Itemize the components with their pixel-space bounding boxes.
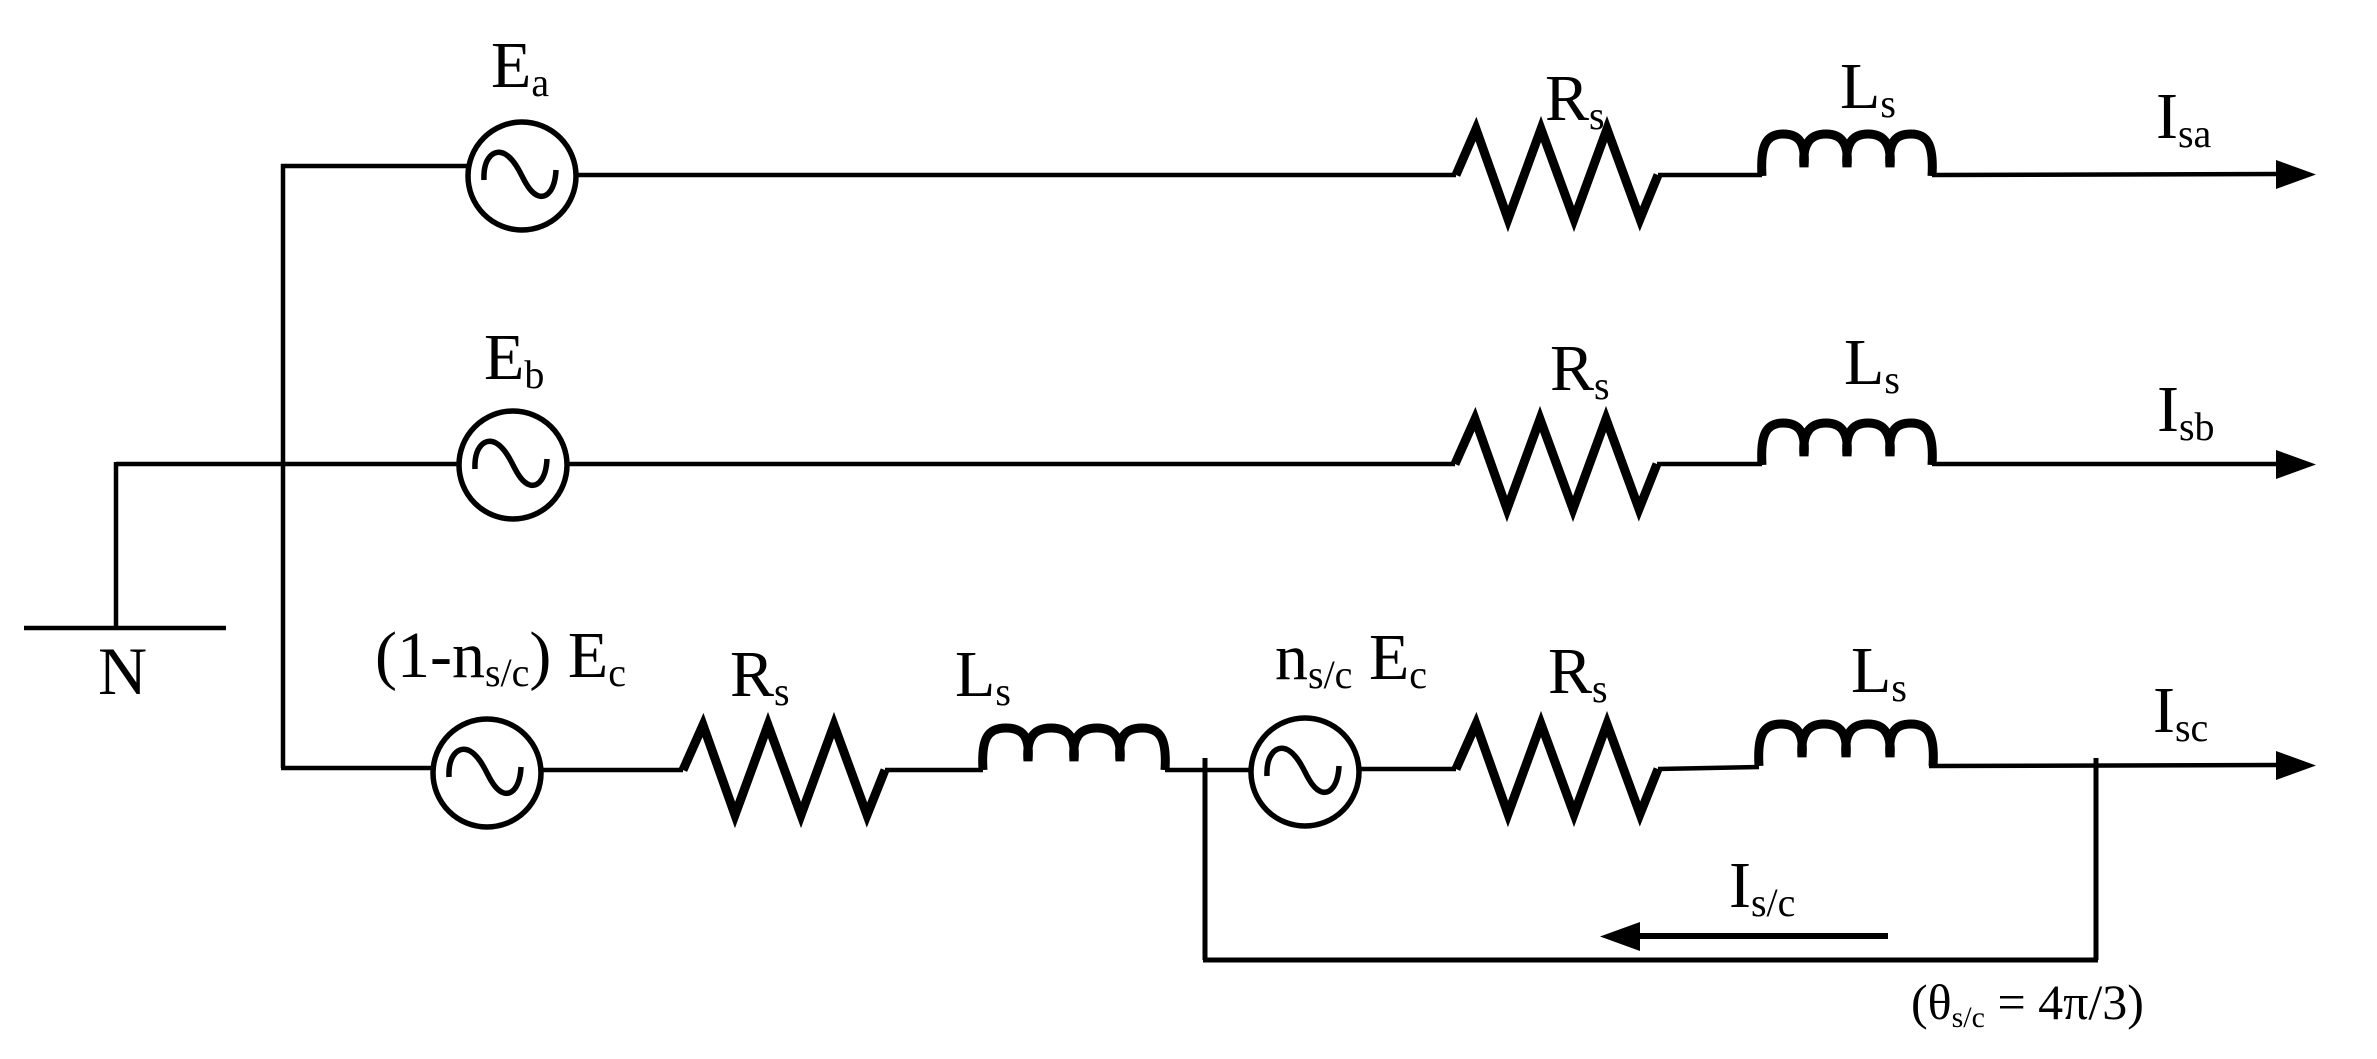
source Ea sine symbol: [484, 152, 556, 196]
wire phase b middle (source to resistor): [567, 462, 1455, 467]
source (1-ns/c)Ec circle: [433, 719, 541, 827]
node N bus (neutral vertical wire): [281, 164, 286, 768]
wire phase b right: [1932, 462, 2278, 467]
current arrow Isb head: [2276, 450, 2316, 479]
resistor Rs phase a: [1456, 129, 1658, 219]
current arrow Is/c head: [1600, 922, 1640, 951]
wire phase c (resistor 1 to inductor 1): [885, 768, 983, 773]
wire phase b left (corner to source Eb): [116, 462, 459, 467]
resistor Rs phase b: [1455, 419, 1657, 509]
resistor Rs phase c first: [683, 725, 885, 815]
current arrow Isc head: [2276, 751, 2316, 780]
wire phase c left (bus corner to source): [281, 766, 434, 771]
source ns/cEc sine symbol: [1267, 748, 1339, 792]
svg-text:(θs/c = 4π/3): (θs/c = 4π/3): [1911, 974, 2144, 1034]
inductor Ls phase c second: [1759, 724, 1934, 766]
inductor Ls phase a: [1762, 134, 1933, 176]
wire phase c (inductor 1 to source 2, with junction): [1165, 768, 1253, 773]
source Eb circle: [459, 411, 567, 519]
wire phase a middle (source to resistor): [576, 173, 1456, 178]
source Eb sine symbol: [475, 441, 547, 485]
current arrow Isa head: [2276, 160, 2316, 189]
wire stub to neutral N: [114, 462, 119, 628]
wire phase b (resistor to inductor): [1657, 462, 1762, 467]
wire phase c (source 2 to resistor 2): [1359, 767, 1456, 772]
current arrow Is/c line (pointing left): [1640, 933, 1888, 939]
wire short-circuit loop bottom: [1203, 958, 2098, 963]
wire phase a (resistor to inductor): [1658, 173, 1762, 178]
ground bar N: [24, 626, 226, 631]
wire phase c (resistor 2 to inductor 2): [1658, 767, 1759, 769]
wire short-circuit loop left vertical: [1203, 758, 1208, 960]
svg-text:N: N: [98, 633, 147, 709]
inductor Ls phase b: [1762, 423, 1933, 465]
source ns/cEc circle: [1251, 718, 1359, 826]
wire phase a right: [1932, 174, 2278, 175]
wire short-circuit loop right vertical: [2094, 758, 2099, 960]
inductor Ls phase c first: [983, 728, 1166, 770]
resistor Rs phase c second: [1456, 724, 1658, 814]
source (1-ns/c)Ec sine symbol: [449, 749, 521, 793]
source Ea circle: [468, 122, 576, 230]
wire phase c (source to resistor 1): [541, 768, 683, 773]
wire phase a left (bus to source Ea): [281, 164, 470, 169]
wire phase c right: [1929, 765, 2278, 766]
